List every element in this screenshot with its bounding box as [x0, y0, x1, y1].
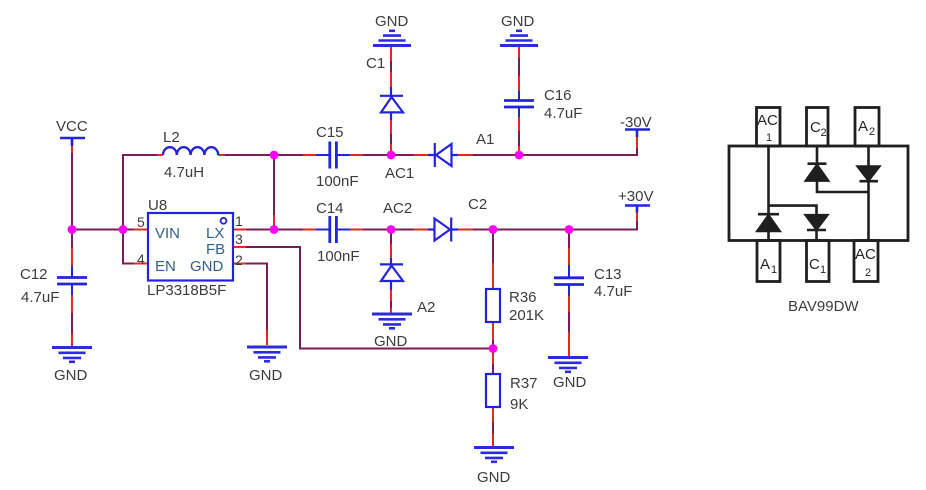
- svg-text:100nF: 100nF: [316, 173, 359, 190]
- svg-text:1: 1: [820, 264, 826, 276]
- pin GND top2: [518, 47, 520, 58]
- pin L2 right: [218, 154, 225, 156]
- svg-text:-30V: -30V: [620, 114, 652, 131]
- wire VCC vertical to rail2: [71, 153, 73, 230]
- pin C12 top: [71, 248, 73, 266]
- pin GND under C12: [71, 333, 73, 346]
- wire L2 left leg from rail1 down to EN: [123, 155, 157, 264]
- BAV99DW internal wire AC1 rail: [767, 146, 770, 213]
- ground under A2: [372, 314, 412, 328]
- pin GND under R37: [492, 434, 494, 446]
- junction node AC1: [387, 151, 396, 160]
- wire diode A2 anode down to GND: [390, 284, 392, 312]
- svg-text:VCC: VCC: [56, 118, 88, 135]
- svg-text:2: 2: [869, 126, 875, 138]
- diode C1 (pointing up, above AC1): [380, 87, 403, 120]
- svg-text:201K: 201K: [509, 307, 544, 324]
- pin D1 right: [458, 154, 473, 156]
- pin GND under C13: [568, 332, 570, 356]
- wire AC1 node up to diode C1: [390, 120, 392, 155]
- wire rail2 from VCC node to U8 pin5: [72, 229, 134, 231]
- svg-text:2: 2: [865, 267, 871, 279]
- svg-text:AC1: AC1: [385, 165, 414, 182]
- resistor R37: [486, 374, 500, 407]
- svg-text:EN: EN: [155, 258, 176, 275]
- svg-text:100nF: 100nF: [317, 248, 360, 265]
- diode D2 (pointing right, rail2): [428, 218, 458, 242]
- svg-text:AC: AC: [757, 112, 778, 129]
- svg-text:GND: GND: [477, 469, 511, 486]
- red pin segments: [72, 47, 637, 446]
- pin diode C1 node side: [390, 144, 392, 155]
- wire rail2 LX node to C14: [274, 229, 303, 231]
- svg-text:LP3318B5F: LP3318B5F: [147, 282, 226, 299]
- pin -30V: [636, 137, 638, 148]
- svg-text:C: C: [809, 256, 820, 273]
- junction node FB divider: [489, 344, 498, 353]
- power flag -30V: [625, 130, 650, 138]
- pin C16 top: [518, 76, 520, 91]
- pin LX vertical tip: [273, 215, 275, 226]
- capacitor C14: [316, 216, 350, 243]
- svg-text:GND: GND: [375, 13, 409, 30]
- capacitor C12: [57, 266, 87, 295]
- wire LX node vertical to rail1: [273, 155, 275, 230]
- op IC U8 box: [148, 213, 233, 281]
- wire rail2 D2 cathode to R36 node to C13 node to +30V: [461, 221, 637, 230]
- svg-text:AC: AC: [855, 246, 876, 263]
- wire FB node down to R37: [492, 349, 494, 375]
- wire GND down to C16: [518, 47, 520, 91]
- capacitor C13: [554, 265, 584, 296]
- junction node LX rail2: [270, 225, 279, 234]
- BAV99DW pin box C1 bottom: [807, 241, 830, 282]
- svg-text:C16: C16: [544, 87, 572, 104]
- pin C14 right: [350, 229, 363, 231]
- wire AC2 node down to diode A2: [390, 230, 392, 259]
- pin D2 left: [414, 229, 428, 231]
- wire C16 down to rail1 node: [518, 117, 520, 155]
- diode D1 (pointing left, rail1): [428, 143, 458, 167]
- pin C12 bottom: [71, 295, 73, 313]
- ground top1 (inverted, above C1): [373, 31, 411, 46]
- pin GND top1: [390, 47, 392, 61]
- BAV99DW pin box C2 top: [807, 108, 829, 147]
- pin C16 node side: [518, 146, 520, 155]
- svg-text:3: 3: [235, 231, 243, 247]
- svg-text:2: 2: [821, 127, 827, 139]
- power flag +30V: [625, 206, 650, 213]
- svg-text:A1: A1: [476, 131, 494, 148]
- svg-text:GND: GND: [553, 374, 587, 391]
- svg-text:GND: GND: [54, 367, 88, 384]
- pin C13 bottom: [568, 296, 570, 312]
- pin C15 left: [303, 154, 316, 156]
- wire U8 GND pin2 over and down to GND symbol: [246, 264, 267, 335]
- wire U8 LX pin1 to node: [246, 229, 274, 231]
- pin diode A2 bottom: [390, 290, 392, 301]
- wire C12 bottom to GND: [71, 295, 73, 345]
- wire rail2 C14 to AC2 node to D2: [363, 229, 414, 231]
- wire rail1 L2 to C15: [223, 154, 303, 156]
- BAV99DW pin box AC1 top: [757, 108, 781, 147]
- pin diode C1 bottom: [390, 120, 392, 134]
- diode A2 (pointing up, below AC2): [380, 258, 403, 290]
- BAV99DW pin box A2 top: [855, 108, 879, 147]
- BAV99DW internal diode A2 (down): [858, 146, 879, 241]
- svg-text:4.7uF: 4.7uF: [21, 289, 59, 306]
- pin GND under A2: [390, 308, 392, 313]
- BAV99DW internal diode A1 (up): [758, 214, 780, 240]
- pin C15 right: [350, 154, 363, 156]
- svg-text:GND: GND: [501, 13, 535, 30]
- svg-text:4.7uF: 4.7uF: [544, 105, 582, 122]
- svg-text:4.7uF: 4.7uF: [594, 283, 632, 300]
- pin D2 right: [458, 229, 473, 231]
- svg-text:4: 4: [137, 251, 145, 267]
- wire R37 bottom to GND: [492, 407, 494, 445]
- pin R36 bottom: [492, 322, 494, 340]
- svg-text:LX: LX: [206, 225, 224, 242]
- junction node AC2: [387, 225, 396, 234]
- pin VCC: [71, 146, 73, 153]
- pin U8 p3: [233, 246, 246, 248]
- svg-text:A: A: [858, 118, 868, 135]
- wire U8 FB pin3 over and down to R36-R37 node: [246, 247, 493, 349]
- pin R36 top: [492, 263, 494, 289]
- ground under C13: [548, 358, 588, 372]
- svg-text:VIN: VIN: [155, 225, 180, 242]
- svg-text:C2: C2: [468, 196, 487, 213]
- svg-text:U8: U8: [148, 197, 167, 214]
- wire diode C1 cathode up to GND: [390, 47, 392, 87]
- pin C13 top: [568, 248, 570, 265]
- svg-text:2: 2: [235, 252, 243, 268]
- wire rail1 C15 to AC1 node to D1: [363, 154, 414, 156]
- pin diode A2 top: [390, 244, 392, 258]
- BAV99DW package body: [729, 146, 908, 241]
- svg-text:1: 1: [235, 213, 243, 229]
- svg-text:1: 1: [766, 132, 772, 144]
- svg-text:BAV99DW: BAV99DW: [788, 298, 859, 315]
- junction node EN branch: [119, 225, 128, 234]
- resistor R36: [486, 289, 500, 322]
- svg-text:+30V: +30V: [618, 188, 653, 205]
- svg-text:4.7uH: 4.7uH: [164, 164, 204, 181]
- junction node VCC-rail2: [68, 225, 77, 234]
- pin U8 p1: [233, 229, 246, 231]
- inductor L2: [163, 147, 218, 155]
- pin D1 left: [414, 154, 428, 156]
- ground of U8 pin2: [247, 347, 287, 361]
- svg-text:1: 1: [771, 264, 777, 276]
- svg-text:C14: C14: [316, 200, 344, 217]
- svg-text:C: C: [810, 119, 821, 136]
- svg-text:FB: FB: [206, 241, 225, 258]
- svg-text:GND: GND: [249, 367, 283, 384]
- wire R36 node down through R36: [492, 233, 494, 289]
- capacitor C16: [504, 91, 534, 117]
- svg-text:A: A: [760, 256, 770, 273]
- svg-text:9K: 9K: [510, 396, 528, 413]
- pin L2 left: [157, 154, 163, 156]
- pin C14 left: [303, 229, 316, 231]
- wire C13 bottom to GND: [568, 296, 570, 354]
- junction node C13-rail2: [565, 225, 574, 234]
- junction node LX rail1: [270, 151, 279, 160]
- svg-text:R36: R36: [509, 289, 537, 306]
- pin U8 p4: [134, 263, 148, 265]
- pin +30V: [636, 213, 638, 222]
- ground top2 (inverted, above C16): [500, 31, 538, 46]
- capacitor C15: [316, 142, 350, 169]
- pin diode C1 top: [390, 72, 392, 87]
- BAV99DW pin box A1 bottom: [757, 241, 780, 282]
- pin GND of U8 wire: [266, 330, 268, 345]
- pin C16 bottom: [518, 117, 520, 131]
- BAV99DW internal diode C2 (up): [806, 146, 869, 192]
- svg-text:GND: GND: [374, 333, 408, 350]
- pin U8 p5: [134, 229, 148, 231]
- svg-text:5: 5: [137, 214, 145, 230]
- ground under C12: [52, 348, 92, 362]
- BAV99DW internal diode C1 (down): [806, 215, 827, 240]
- junction node R36-rail2: [489, 225, 498, 234]
- wire C13 node down to C13: [568, 233, 570, 265]
- pin R37 bottom: [492, 407, 494, 423]
- svg-text:C12: C12: [20, 266, 48, 283]
- svg-text:GND: GND: [190, 258, 224, 275]
- junction node C16-rail1: [515, 151, 524, 160]
- svg-text:AC2: AC2: [383, 200, 412, 217]
- wire R36 bottom to FB node: [492, 322, 494, 349]
- svg-text:R37: R37: [510, 375, 538, 392]
- svg-text:C1: C1: [366, 55, 385, 72]
- svg-text:C13: C13: [594, 266, 622, 283]
- power flag VCC: [60, 138, 85, 146]
- BAV99DW pin box AC2 bottom: [854, 241, 878, 282]
- svg-text:C15: C15: [316, 124, 344, 141]
- wire VCC node down to C12: [71, 230, 73, 267]
- wire rail1 D1 anode to C16 node to -30V: [461, 148, 637, 155]
- svg-text:A2: A2: [417, 299, 435, 316]
- pin U8 p2: [233, 263, 246, 265]
- BAV99DW internal wire AC1 to C1-diode: [769, 206, 817, 214]
- ground under R37: [474, 448, 514, 462]
- pin R37 top: [492, 349, 494, 365]
- svg-text:L2: L2: [163, 129, 180, 146]
